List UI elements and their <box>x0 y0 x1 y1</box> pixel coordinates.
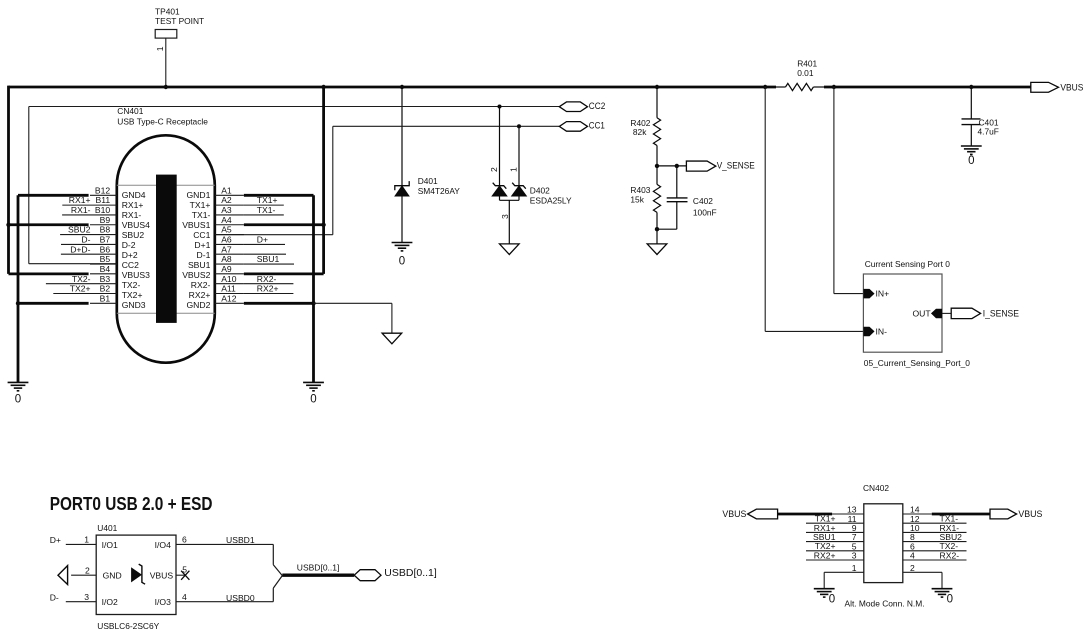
svg-text:0: 0 <box>15 394 21 406</box>
svg-text:A9: A9 <box>221 264 232 274</box>
svg-text:D-: D- <box>50 593 59 603</box>
svg-text:100nF: 100nF <box>693 208 717 218</box>
svg-text:B7: B7 <box>100 235 111 245</box>
svg-text:I_SENSE: I_SENSE <box>983 309 1019 320</box>
svg-text:A5: A5 <box>221 225 232 235</box>
svg-text:2: 2 <box>85 565 90 575</box>
svg-text:D+: D+ <box>257 235 268 245</box>
svg-text:A11: A11 <box>221 284 236 294</box>
svg-text:D-2: D-2 <box>122 240 136 250</box>
svg-text:C402: C402 <box>693 196 713 206</box>
svg-text:D+1: D+1 <box>194 240 210 250</box>
svg-text:TX1-: TX1- <box>257 205 276 215</box>
svg-text:GND: GND <box>103 571 122 581</box>
svg-text:3: 3 <box>852 551 857 561</box>
svg-text:RX1+: RX1+ <box>69 195 91 205</box>
svg-text:VBUS4: VBUS4 <box>122 220 150 230</box>
svg-text:VBUS2: VBUS2 <box>182 270 210 280</box>
svg-text:B5: B5 <box>100 254 111 264</box>
svg-text:RX2-: RX2- <box>191 280 211 290</box>
svg-text:IN+: IN+ <box>876 289 890 299</box>
svg-text:U401: U401 <box>97 523 117 533</box>
svg-text:D-1: D-1 <box>197 250 211 260</box>
svg-text:6: 6 <box>182 535 187 545</box>
svg-text:82k: 82k <box>633 127 647 137</box>
svg-text:VBUS: VBUS <box>1018 509 1042 520</box>
svg-text:VBUS: VBUS <box>722 509 746 520</box>
svg-text:SBU1: SBU1 <box>188 260 211 270</box>
svg-text:VBUS: VBUS <box>150 571 174 581</box>
svg-text:0: 0 <box>947 594 953 606</box>
svg-text:0: 0 <box>968 155 974 167</box>
svg-text:TX1+: TX1+ <box>190 200 211 210</box>
svg-text:D+: D+ <box>50 535 61 545</box>
svg-text:VBUS3: VBUS3 <box>122 270 150 280</box>
svg-text:15k: 15k <box>630 194 644 204</box>
svg-text:1: 1 <box>84 535 89 545</box>
svg-text:A8: A8 <box>221 254 232 264</box>
svg-text:I/O2: I/O2 <box>102 597 118 607</box>
svg-text:USB Type-C Receptacle: USB Type-C Receptacle <box>117 116 208 126</box>
svg-text:B12: B12 <box>95 185 111 195</box>
svg-text:TX2+: TX2+ <box>122 290 143 300</box>
svg-text:A10: A10 <box>221 274 237 284</box>
svg-text:4: 4 <box>910 551 915 561</box>
svg-text:USBD1: USBD1 <box>226 535 255 545</box>
svg-text:0.01: 0.01 <box>797 68 814 78</box>
svg-text:GND1: GND1 <box>187 190 211 200</box>
svg-text:1: 1 <box>509 167 519 172</box>
svg-text:D402: D402 <box>530 186 550 196</box>
svg-text:A7: A7 <box>221 244 232 254</box>
svg-text:CC2: CC2 <box>589 101 606 112</box>
svg-text:4.7uF: 4.7uF <box>978 126 999 136</box>
svg-text:Alt. Mode Conn. N.M.: Alt. Mode Conn. N.M. <box>845 599 925 609</box>
svg-text:SBU2: SBU2 <box>68 225 91 235</box>
svg-text:0: 0 <box>310 394 316 406</box>
svg-text:ESDA25LY: ESDA25LY <box>530 195 572 205</box>
svg-text:1: 1 <box>155 46 165 51</box>
svg-text:TX2+: TX2+ <box>70 284 91 294</box>
svg-text:USBD[0..1]: USBD[0..1] <box>384 568 437 579</box>
svg-text:RX1-: RX1- <box>122 210 142 220</box>
svg-text:2: 2 <box>910 563 915 573</box>
svg-text:0: 0 <box>399 256 405 268</box>
svg-text:D+D-: D+D- <box>70 244 90 254</box>
svg-text:CN402: CN402 <box>863 483 889 493</box>
svg-text:VBUS1: VBUS1 <box>182 220 210 230</box>
svg-text:CC1: CC1 <box>589 121 605 132</box>
svg-text:RX2+: RX2+ <box>814 550 836 560</box>
svg-text:I/O3: I/O3 <box>155 597 171 607</box>
svg-text:2: 2 <box>489 167 499 172</box>
svg-text:GND2: GND2 <box>187 300 211 310</box>
svg-text:D+2: D+2 <box>122 250 138 260</box>
svg-text:05_Current_Sensing_Port_0: 05_Current_Sensing_Port_0 <box>864 358 970 368</box>
svg-text:RX2+: RX2+ <box>257 284 279 294</box>
svg-text:R401: R401 <box>797 58 817 68</box>
svg-text:SM4T26AY: SM4T26AY <box>418 186 461 196</box>
svg-text:RX2-: RX2- <box>940 550 960 560</box>
svg-text:A12: A12 <box>221 293 237 303</box>
svg-text:TP401: TP401 <box>155 6 180 16</box>
svg-text:B1: B1 <box>100 293 111 303</box>
svg-text:OUT: OUT <box>912 309 931 319</box>
svg-text:D-: D- <box>81 235 90 245</box>
svg-text:PORT0 USB 2.0 + ESD: PORT0 USB 2.0 + ESD <box>50 494 213 514</box>
svg-text:B4: B4 <box>100 264 111 274</box>
svg-text:VBUS: VBUS <box>1060 82 1083 93</box>
svg-text:A1: A1 <box>221 185 232 195</box>
svg-text:A6: A6 <box>221 235 232 245</box>
svg-text:B6: B6 <box>100 244 111 254</box>
svg-text:SBU2: SBU2 <box>122 230 145 240</box>
svg-text:I/O1: I/O1 <box>102 540 118 550</box>
svg-text:USBD[0..1]: USBD[0..1] <box>297 563 340 573</box>
svg-text:TX1-: TX1- <box>192 210 211 220</box>
svg-text:RX2-: RX2- <box>257 274 277 284</box>
svg-text:USBD0: USBD0 <box>226 593 255 603</box>
svg-text:0: 0 <box>829 594 835 606</box>
svg-text:RX1-: RX1- <box>71 205 91 215</box>
svg-text:4: 4 <box>182 592 187 602</box>
svg-text:B3: B3 <box>100 274 111 284</box>
svg-text:CC2: CC2 <box>122 260 139 270</box>
svg-text:CC1: CC1 <box>193 230 210 240</box>
svg-text:CN401: CN401 <box>117 106 143 116</box>
svg-text:RX1+: RX1+ <box>122 200 144 210</box>
svg-text:SBU1: SBU1 <box>257 254 280 264</box>
svg-text:GND3: GND3 <box>122 300 146 310</box>
svg-text:B9: B9 <box>100 215 111 225</box>
svg-text:5: 5 <box>182 564 187 574</box>
svg-text:IN-: IN- <box>876 327 888 337</box>
svg-text:TX1+: TX1+ <box>257 195 278 205</box>
svg-text:1: 1 <box>852 563 857 573</box>
svg-text:A2: A2 <box>221 195 232 205</box>
svg-text:3: 3 <box>84 592 89 602</box>
svg-text:A4: A4 <box>221 215 232 225</box>
svg-text:B11: B11 <box>96 195 111 205</box>
svg-text:3: 3 <box>500 214 510 219</box>
svg-text:A3: A3 <box>221 205 232 215</box>
svg-text:B8: B8 <box>100 225 111 235</box>
svg-text:GND4: GND4 <box>122 190 146 200</box>
svg-text:TX2-: TX2- <box>122 280 141 290</box>
svg-text:Current Sensing Port 0: Current Sensing Port 0 <box>865 259 951 269</box>
svg-text:USBLC6-2SC6Y: USBLC6-2SC6Y <box>97 621 159 631</box>
svg-text:RX2+: RX2+ <box>189 290 211 300</box>
svg-text:B10: B10 <box>95 205 111 215</box>
svg-text:TX2-: TX2- <box>72 274 91 284</box>
svg-text:D401: D401 <box>418 176 438 186</box>
svg-text:V_SENSE: V_SENSE <box>717 161 755 172</box>
svg-text:TEST POINT: TEST POINT <box>155 16 204 26</box>
svg-text:B2: B2 <box>100 284 111 294</box>
svg-text:I/O4: I/O4 <box>155 540 171 550</box>
